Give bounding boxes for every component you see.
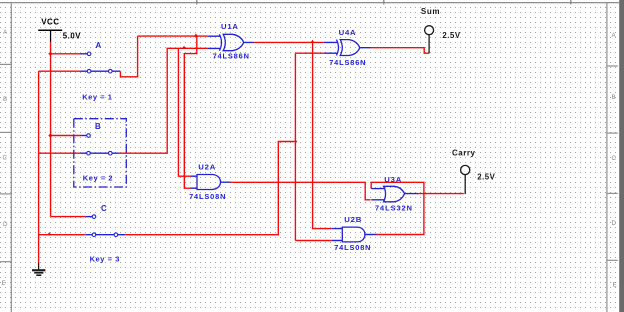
svg-text:U4A: U4A [339,28,357,37]
wire switch C common [51,216,86,218]
svg-text:Key = 1: Key = 1 [82,93,112,102]
wire net C right and up [125,142,295,235]
wire switch C row left [39,234,86,236]
and gate U2A 74LS08N [189,162,230,200]
selection box key B [74,119,127,187]
svg-text:U2A: U2A [198,162,216,171]
svg-text:C: C [101,204,107,213]
and gate U2B 74LS08N [332,215,377,252]
switch J1 key A [81,52,121,73]
svg-text:2.5V: 2.5V [442,31,460,40]
switch J2 key B [81,134,120,155]
svg-text:C: C [612,155,617,162]
junction net C jog [295,140,297,144]
switch J3 key C [86,215,125,237]
wire switch A common [51,53,81,55]
svg-text:D: D [612,220,617,227]
probe Sum [421,7,461,54]
wire net B drop to U2A [178,48,190,176]
svg-text:U2B: U2B [344,215,362,224]
svg-text:74LS08N: 74LS08N [334,243,371,252]
wire switch B row left [39,152,81,154]
svg-text:5.0V: 5.0V [63,32,81,41]
xor gate U1A 74LS86N [207,22,254,61]
ground [32,263,45,276]
or gate U3A 74LS32N [371,175,418,213]
wire net A staircase to U2A [184,36,197,188]
wire switch A row left [39,70,81,72]
svg-text:A: A [96,41,102,50]
svg-text:D: D [3,221,8,228]
junction node A branch [194,34,199,37]
svg-text:U1A: U1A [221,22,239,31]
xor gate U4A 74LS86N [324,28,371,67]
wire U3A out to Carry [418,193,464,195]
svg-text:E: E [613,282,617,289]
sheet border left line [0,2,12,312]
svg-text:VCC: VCC [41,17,59,26]
svg-text:Key = 2: Key = 2 [83,174,113,183]
power VCC V1 [38,17,81,42]
wire U4A out to Sum [370,48,429,54]
junction node B branch [182,46,187,49]
wire U1A out drop to U2B [313,42,332,228]
junction node C row [47,232,52,235]
wire ground rail vertical [38,71,40,263]
wire switch B common [51,135,81,137]
svg-text:B: B [95,122,101,131]
wire net C to U4A [295,52,323,54]
svg-text:E: E [2,280,6,287]
wire U2A out to U3A [230,182,370,200]
wire switch A out step [120,36,137,77]
svg-text:Sum: Sum [421,7,440,16]
junction node B common [48,133,52,137]
svg-text:B: B [3,96,7,103]
svg-text:Carry: Carry [452,149,475,158]
svg-text:U3A: U3A [384,175,402,184]
svg-text:C: C [3,155,8,162]
probe Carry [452,149,496,194]
svg-text:B: B [612,94,616,101]
svg-text:74LS86N: 74LS86N [329,58,366,67]
svg-text:Key = 3: Key = 3 [90,255,120,264]
wire net C to U2B [295,240,331,242]
svg-text:2.5V: 2.5V [477,173,495,182]
sheet border right line [606,2,618,312]
svg-text:74LS86N: 74LS86N [213,52,250,61]
junction node A common [48,52,52,56]
wire net C vertical [294,53,296,240]
window edge strip [619,0,624,312]
wire net A to U1A [138,35,208,37]
svg-text:74LS08N: 74LS08N [189,192,226,201]
sheet border top line [0,0,619,5]
svg-text:74LS32N: 74LS32N [375,204,413,213]
wire U2B out over U3A [371,182,424,234]
junction U1A out branch [310,40,315,43]
wire net B to U1A [120,48,208,153]
wire U1A out to U4A [254,41,324,43]
wire VCC rail vertical [50,42,52,217]
